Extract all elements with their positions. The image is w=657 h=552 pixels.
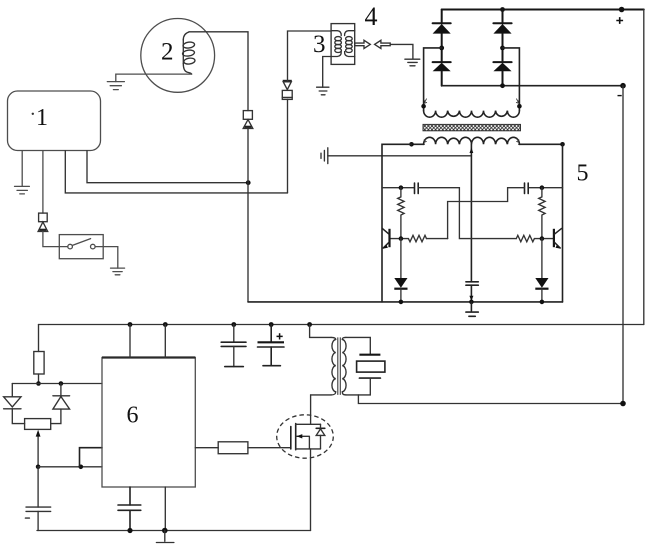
svg-text:3: 3 [313,31,326,58]
wire coil 3 to ground [323,57,331,88]
winding sense arrow right [516,99,519,104]
diode D2 [433,61,451,63]
capacitor C5 [233,325,235,343]
node B junction [439,46,444,51]
connector J3 [283,80,292,82]
diode D5 [400,239,402,278]
wire right edge plus down [643,10,645,325]
plus sign [616,17,623,24]
wire reference node to IC [12,383,102,385]
IC bottom pin wire to capacitor C7 [129,487,131,505]
oscillator left rail wire [382,144,412,302]
ground under box 1 [15,186,30,194]
diode D1 [441,10,443,24]
plus sign at C6 [277,333,283,339]
capacitor C1 [415,183,419,194]
transformer T2 primary winding [331,337,336,339]
piezo load bottom plate [359,377,380,379]
wire C1 to right base [418,188,516,239]
piezo load top plate [359,354,380,356]
wire pin1 of box 1 [21,151,23,186]
node top-right junction [619,7,625,13]
oscillator right rail wire [562,144,564,302]
diode D8 [60,384,62,396]
wire pin2 of box 1 [42,151,44,213]
control unit box 1 [8,91,101,151]
resistor R1 left bias [398,188,404,239]
sideways ground left of oscillator [321,148,328,164]
connector J2 [243,111,252,120]
magneto circle 2 [141,19,215,93]
transformer T1 primary winding [424,137,520,144]
connector J1 [39,213,48,222]
wire node x248 down to oscillator ground rail [247,128,249,302]
IC top pins [130,325,165,358]
wire spark gap to ground [390,44,413,58]
resistor R3 right bias [539,188,545,239]
node minus junction [620,83,626,89]
wire rail to transformer T2 primary [310,325,332,338]
wire wiper node down to capacitor C4 [37,467,39,507]
zener diode D7 [11,384,13,397]
winding sense arrow left [424,99,427,104]
wire C2 to left base [448,188,525,239]
transistor Q2 [553,229,555,247]
resistor R4 right base [516,235,534,241]
wire node C to transformer [503,48,520,106]
wire J3 up to ignition coil 3 [288,31,332,81]
svg-text:6: 6 [127,403,139,429]
IC ground pin wire [164,487,166,531]
oscillator bottom rail wire [248,301,563,303]
spark gap 4 arrow right [355,40,371,48]
ground below IC [164,531,166,542]
wire primary right end [519,143,563,145]
MOSFET Q3 [290,427,292,449]
center tap arrow [470,148,474,154]
right collector node wire [528,187,562,189]
wiper arrow [37,436,39,467]
transistor Q1 [388,229,390,247]
switch S1 [59,235,103,259]
wire primary left end [412,143,425,145]
node C junction [500,46,505,51]
wire node B to transformer [424,48,442,106]
wire coil top to node x248 [189,32,248,111]
node A junction [246,180,251,185]
spark gap 4 arrow left [375,40,391,48]
capacitor C7 [118,505,141,510]
capacitor C2 [525,183,529,194]
wire coil to ground [116,74,192,82]
left collector node wire [382,187,414,189]
MOSFET body diode [320,435,322,449]
diode D6 [541,239,543,278]
capacitor C4 [26,507,51,511]
transformer T1 core [423,124,521,130]
potentiometer RP [25,419,51,430]
center tap wire down [470,144,472,281]
wire x288 up to connector J3 [287,99,289,192]
svg-text:1: 1 [36,105,48,131]
wire ground to center tap [328,155,472,157]
ignition coil 3 [331,24,355,65]
wire IC pin step [80,448,103,467]
magneto coil [183,32,189,40]
winding sense arrow primary right [516,138,519,142]
ground at switch [111,268,125,275]
rectifier bottom rail [442,85,623,87]
MOSFET ellipse [277,415,334,458]
ground near circle 2 [107,82,124,90]
diode D4 [493,61,511,63]
transformer T1 secondary winding [424,105,520,111]
ground right of spark gap [405,59,420,66]
piezo load body [357,361,385,372]
svg-text:2: 2 [161,39,174,66]
ground under coil 3 [317,87,329,95]
wire J1 to switch [43,232,68,247]
wire pin4 of box 1 to node A [87,151,248,183]
converter ground rail [37,530,311,532]
wire wiper node to IC [38,466,102,468]
wire ground rail up to MOSFET source [310,449,312,531]
wire secondary top to load [346,337,370,354]
wire rail to resistor R5 [38,325,40,352]
wire T2 primary to MOSFET drain [311,394,332,396]
ground below oscillator [470,302,472,311]
IC box 6 [102,358,195,488]
capacitor C3 [466,282,478,285]
resistor R2 left base [408,235,426,241]
winding sense arrow primary left [424,138,427,142]
capacitor C6 electrolytic [270,325,272,343]
svg-text:5: 5 [577,160,589,186]
wire switch to ground [95,247,118,269]
wire secondary return to minus line [358,395,623,404]
wire load bottom to secondary bottom [346,378,370,395]
minus sign [618,95,622,97]
gate resistor R6 [195,447,218,449]
wire pin3 of box 1 to node x288 [65,151,287,193]
transformer T2 secondary winding [342,337,346,339]
diode D3 [502,10,504,24]
transformer T2 core [338,337,341,395]
node top bridge junction [500,7,505,12]
supply rail of converter section [39,324,644,326]
resistor R5 [34,352,44,375]
svg-text:4: 4 [365,2,378,31]
wire minus rail down right side [622,86,624,404]
rectifier top rail [442,9,644,11]
